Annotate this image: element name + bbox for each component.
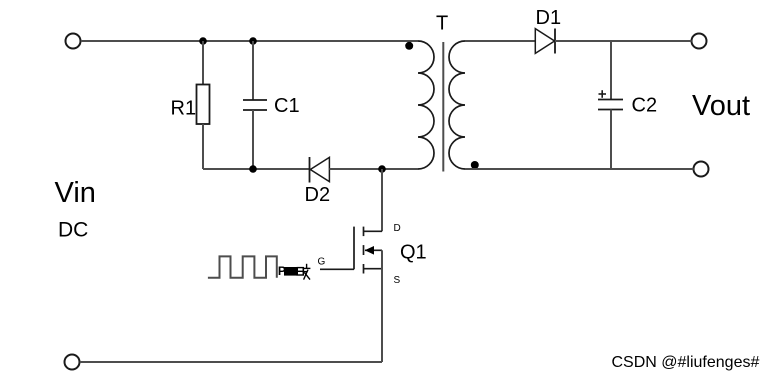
polarity dot secondary [471, 161, 479, 169]
transformer T secondary winding [449, 41, 465, 169]
svg-text:DC: DC [58, 219, 88, 242]
transformer T primary winding [418, 41, 434, 169]
svg-text:CSDN @#liufenges#: CSDN @#liufenges# [612, 354, 760, 371]
terminal Vin- [65, 355, 80, 370]
label + polarity C2 [599, 90, 607, 98]
diode D2 [310, 157, 330, 183]
transformer T core [442, 42, 444, 172]
svg-text:G: G [318, 257, 326, 268]
svg-text:D2: D2 [305, 184, 331, 206]
transistor Q1 [320, 227, 382, 274]
svg-text:C1: C1 [274, 95, 300, 117]
junction dot drain node [378, 165, 386, 173]
wire mid rail left [203, 168, 310, 170]
wire source to bottom rail [381, 250, 383, 362]
polarity dot primary [405, 42, 413, 50]
junction dot C1 bottom [249, 165, 257, 173]
junction dot C1 top [249, 37, 257, 45]
resistor R1 [197, 41, 210, 169]
svg-text:D1: D1 [536, 7, 562, 29]
svg-text:Q1: Q1 [400, 242, 427, 264]
wire bottom rail [80, 361, 382, 363]
wire drain [381, 169, 383, 231]
wire secondary top left [465, 40, 535, 42]
svg-text:Vin: Vin [55, 177, 96, 209]
wire secondary bottom [465, 168, 694, 170]
svg-text:Vout: Vout [692, 90, 750, 122]
svg-text:R1: R1 [171, 98, 197, 120]
svg-text:T: T [436, 13, 448, 35]
wire secondary top right [555, 40, 692, 42]
junction dot R1 top [199, 37, 207, 45]
terminal Vin+ [66, 34, 81, 49]
terminal Vout- [694, 162, 709, 177]
label PWM波 [278, 264, 311, 280]
PWM square wave [208, 256, 277, 277]
wire mid rail right [329, 168, 418, 170]
svg-text:D: D [394, 223, 401, 234]
capacitor C1 [243, 41, 267, 169]
wire top rail primary [81, 40, 418, 42]
svg-text:C2: C2 [632, 95, 658, 117]
capacitor C2 [598, 41, 623, 169]
diode D1 [535, 29, 555, 54]
terminal Vout+ [692, 34, 707, 49]
svg-text:S: S [394, 275, 401, 286]
